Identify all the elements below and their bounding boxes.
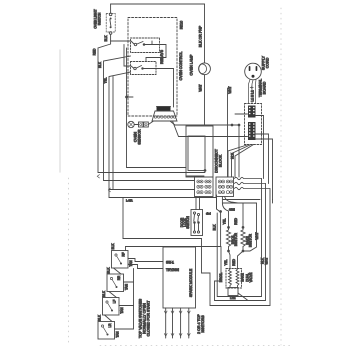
svg-text:BOARD: BOARD — [263, 81, 267, 94]
svg-text:WHT: WHT — [228, 86, 232, 93]
svg-text:R510: R510 — [180, 21, 184, 30]
svg-text:IGNITOR: IGNITOR — [234, 232, 238, 246]
svg-text:SWITCH: SWITCH — [186, 216, 190, 229]
svg-text:BAKE: BAKE — [241, 273, 245, 282]
svg-text:BLK: BLK — [102, 290, 106, 297]
svg-text:TRY/IGN: TRY/IGN — [166, 268, 180, 272]
svg-text:TAN: TAN — [129, 260, 133, 267]
svg-text:BLK: BLK — [98, 314, 102, 321]
svg-text:VALVE: VALVE — [249, 273, 253, 283]
svg-text:SENSOR: SENSOR — [138, 129, 142, 145]
svg-text:BLK: BLK — [104, 35, 108, 42]
svg-text:BLK OR PNP: BLK OR PNP — [198, 25, 202, 47]
svg-text:YEL: YEL — [224, 259, 228, 265]
svg-text:GRN: GRN — [229, 208, 235, 212]
svg-text:LITE: LITE — [230, 296, 236, 300]
svg-text:BLK: BLK — [111, 243, 115, 250]
svg-text:TAN: TAN — [120, 307, 124, 314]
svg-text:RED: RED — [234, 217, 238, 224]
svg-text:SW-1: SW-1 — [166, 261, 174, 265]
svg-text:RED: RED — [93, 48, 97, 55]
svg-text:WHT: WHT — [199, 84, 203, 91]
svg-text:L1 N L2: L1 N L2 — [251, 90, 255, 101]
svg-text:BLK: BLK — [213, 224, 217, 231]
svg-text:RED: RED — [232, 258, 236, 265]
svg-text:RR: RR — [117, 275, 121, 280]
svg-text:BLK: BLK — [98, 61, 102, 68]
svg-text:TAN: TAN — [125, 283, 129, 290]
svg-text:LF: LF — [113, 300, 117, 304]
svg-text:IGNITORS: IGNITORS — [201, 315, 205, 333]
svg-text:YEL: YEL — [223, 218, 227, 224]
svg-text:BLK: BLK — [107, 267, 111, 274]
svg-text:LR: LR — [108, 323, 112, 328]
svg-text:OVEN LAMP: OVEN LAMP — [190, 54, 194, 76]
svg-text:SPARK MODULE: SPARK MODULE — [189, 268, 193, 297]
svg-text:BLK: BLK — [231, 152, 235, 159]
svg-text:CORD: CORD — [266, 57, 270, 68]
svg-text:BLOCK: BLOCK — [219, 154, 223, 167]
svg-text:YEL: YEL — [104, 77, 108, 83]
svg-text:SWITCH: SWITCH — [97, 12, 101, 25]
svg-text:IGNITOR: IGNITOR — [249, 233, 253, 247]
svg-text:CLOSED FOR START: CLOSED FOR START — [147, 300, 151, 337]
svg-text:RELAYS: RELAYS — [160, 49, 164, 64]
svg-text:TAN: TAN — [116, 331, 120, 338]
svg-text:dbd: dbd — [206, 212, 211, 216]
svg-text:OVEN CONTROL: OVEN CONTROL — [179, 52, 183, 81]
svg-text:WHT: WHT — [255, 232, 259, 239]
svg-text:RF: RF — [122, 252, 126, 256]
svg-text:L-NR: L-NR — [126, 198, 133, 202]
